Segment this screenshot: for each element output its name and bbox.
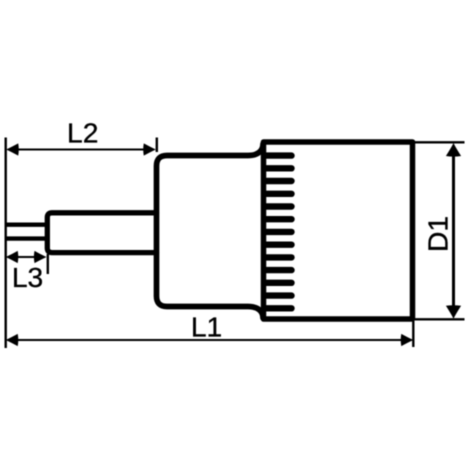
L1 right arrowhead bbox=[401, 334, 414, 346]
knurl tooth 9 bbox=[266, 254, 292, 260]
knurl tooth 7 bbox=[266, 229, 292, 235]
knurl tooth 13 bbox=[266, 305, 292, 311]
socket neck outline bbox=[157, 144, 264, 318]
left extension line bbox=[4, 138, 6, 349]
dimension D1 line bbox=[452, 150, 455, 312]
svg-text:L3: L3 bbox=[12, 261, 43, 293]
L1 left arrowhead bbox=[6, 334, 19, 346]
svg-text:L2: L2 bbox=[67, 117, 98, 149]
socket main body outline bbox=[264, 142, 413, 319]
D1 bottom arrowhead bbox=[446, 305, 461, 319]
dimension L1 line bbox=[14, 339, 406, 341]
svg-text:L1: L1 bbox=[191, 311, 222, 343]
knurl tooth 2 bbox=[266, 165, 292, 171]
knurl tooth 3 bbox=[266, 178, 292, 184]
hex shank outline bbox=[47, 213, 156, 253]
knurl tooth 10 bbox=[266, 267, 292, 273]
knurl tooth 11 bbox=[266, 280, 292, 286]
bit tip bottom line bbox=[5, 236, 47, 240]
D1 top extension line bbox=[415, 141, 465, 143]
knurl tooth 1 bbox=[266, 152, 292, 158]
L1 right extension line bbox=[412, 321, 414, 347]
knurl tooth 5 bbox=[266, 203, 292, 209]
knurl tooth 6 bbox=[266, 216, 292, 222]
dimension L2 line bbox=[14, 148, 148, 150]
L2 right arrowhead bbox=[143, 143, 156, 155]
L3 right extension line bbox=[47, 254, 49, 274]
L3 left arrowhead bbox=[6, 251, 19, 263]
D1 bottom extension line bbox=[415, 318, 465, 320]
dimension L3 line bbox=[12, 256, 41, 258]
D1 top arrowhead bbox=[446, 143, 461, 157]
L3 right arrowhead bbox=[34, 251, 47, 263]
L2 left arrowhead bbox=[6, 143, 19, 155]
knurl tooth 4 bbox=[266, 191, 292, 197]
bit tip top line bbox=[5, 222, 47, 226]
knurl tooth 12 bbox=[266, 292, 292, 298]
L2 right extension line bbox=[156, 138, 158, 153]
knurl tooth 8 bbox=[266, 241, 292, 247]
svg-text:D1: D1 bbox=[422, 216, 454, 252]
